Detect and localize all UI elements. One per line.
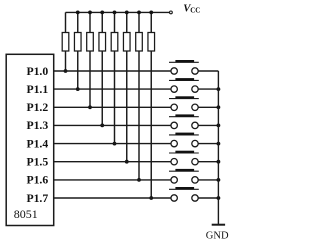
wire GND right bus	[217, 71, 219, 225]
svg-text:P1.4: P1.4	[26, 137, 48, 150]
svg-text:P1.5: P1.5	[26, 156, 48, 169]
svg-text:P1.7: P1.7	[26, 192, 48, 205]
svg-text:P1.0: P1.0	[26, 65, 48, 78]
wire P1.5 from 8051 to switch S6	[54, 161, 171, 163]
wire switch S5 to GND bus	[198, 143, 218, 145]
wire resistor R2 vertical from Vcc bus to P1.1 line	[77, 12, 79, 89]
wire P1.6 from 8051 to switch S7	[54, 179, 171, 181]
pushbutton switch S3	[169, 96, 199, 110]
power label Vcc	[183, 3, 200, 15]
svg-text:P1.3: P1.3	[26, 119, 48, 132]
wire switch S4 to GND bus	[198, 124, 218, 126]
resistor R3	[87, 33, 94, 52]
svg-text:P1.2: P1.2	[26, 101, 48, 114]
wire switch S2 to GND bus	[198, 88, 218, 90]
resistor R4	[99, 33, 106, 52]
wire resistor R1 vertical from Vcc bus to P1.0 line	[65, 12, 67, 71]
junction node S5 / GND bus	[217, 142, 221, 146]
wire switch S3 to GND bus	[198, 106, 218, 108]
wire resistor R3 vertical from Vcc bus to P1.2 line	[89, 12, 91, 107]
junction node S6 / GND bus	[217, 160, 221, 164]
junction node S7 / GND bus	[217, 178, 221, 182]
junction node R1 / P1.0	[64, 69, 68, 73]
resistor R2	[74, 33, 81, 52]
junction node R5 / Vcc bus	[113, 11, 117, 15]
junction node R8 / P1.7	[149, 196, 153, 200]
svg-text:8051: 8051	[14, 207, 38, 221]
junction node R3 / P1.2	[88, 105, 92, 109]
wire resistor R7 vertical from Vcc bus to P1.6 line	[138, 12, 140, 180]
wire switch S6 to GND bus	[198, 161, 218, 163]
wire resistor R4 vertical from Vcc bus to P1.3 line	[101, 12, 103, 125]
resistor R6	[123, 33, 130, 52]
pushbutton switch S6	[169, 151, 199, 165]
pushbutton switch S1	[169, 60, 199, 74]
wire P1.1 from 8051 to switch S2	[54, 88, 171, 90]
wire resistor R8 vertical from Vcc bus to P1.7 line	[150, 12, 152, 198]
junction node R7 / P1.6	[137, 178, 141, 182]
wire switch S1 to GND bus	[198, 70, 218, 72]
junction node R5 / P1.4	[113, 142, 117, 146]
wire P1.7 from 8051 to switch S8	[54, 197, 171, 199]
junction node R6 / Vcc bus	[125, 11, 129, 15]
pushbutton switch S5	[169, 133, 199, 147]
wire P1.0 from 8051 to switch S1	[54, 70, 171, 72]
pushbutton switch S7	[169, 169, 199, 183]
junction node R6 / P1.5	[125, 160, 129, 164]
IC U1 8051 box	[6, 54, 54, 225]
resistor R1	[62, 33, 69, 52]
wire switch S7 to GND bus	[198, 179, 218, 181]
svg-text:GND: GND	[206, 230, 229, 241]
pushbutton switch S4	[169, 114, 199, 128]
wire Vcc top bus	[66, 11, 170, 13]
pushbutton switch S2	[169, 78, 199, 92]
junction node S2 / GND bus	[217, 87, 221, 91]
junction node R2 / Vcc bus	[76, 11, 80, 15]
wire P1.4 from 8051 to switch S5	[54, 143, 171, 145]
junction node R8 / Vcc bus	[149, 11, 153, 15]
resistor R5	[111, 33, 118, 52]
junction node R4 / Vcc bus	[100, 11, 104, 15]
wire P1.3 from 8051 to switch S4	[54, 124, 171, 126]
pushbutton switch S8	[169, 187, 199, 201]
svg-text:P1.1: P1.1	[26, 83, 48, 96]
wire resistor R5 vertical from Vcc bus to P1.4 line	[114, 12, 116, 143]
wire P1.2 from 8051 to switch S3	[54, 106, 171, 108]
svg-text:CC: CC	[190, 7, 200, 15]
junction node R3 / Vcc bus	[88, 11, 92, 15]
wire resistor R6 vertical from Vcc bus to P1.5 line	[126, 12, 128, 161]
junction node R4 / P1.3	[100, 124, 104, 128]
junction node R7 / Vcc bus	[137, 11, 141, 15]
ground symbol	[212, 224, 225, 226]
svg-text:P1.6: P1.6	[26, 174, 48, 187]
resistor R8	[148, 33, 155, 52]
wire switch S8 to GND bus	[198, 197, 218, 199]
junction node S8 / GND bus	[217, 196, 221, 200]
junction node S4 / GND bus	[217, 124, 221, 128]
junction node R2 / P1.1	[76, 87, 80, 91]
Vcc power terminal (open circle)	[170, 11, 173, 14]
resistor R7	[136, 33, 143, 52]
junction node S3 / GND bus	[217, 105, 221, 109]
